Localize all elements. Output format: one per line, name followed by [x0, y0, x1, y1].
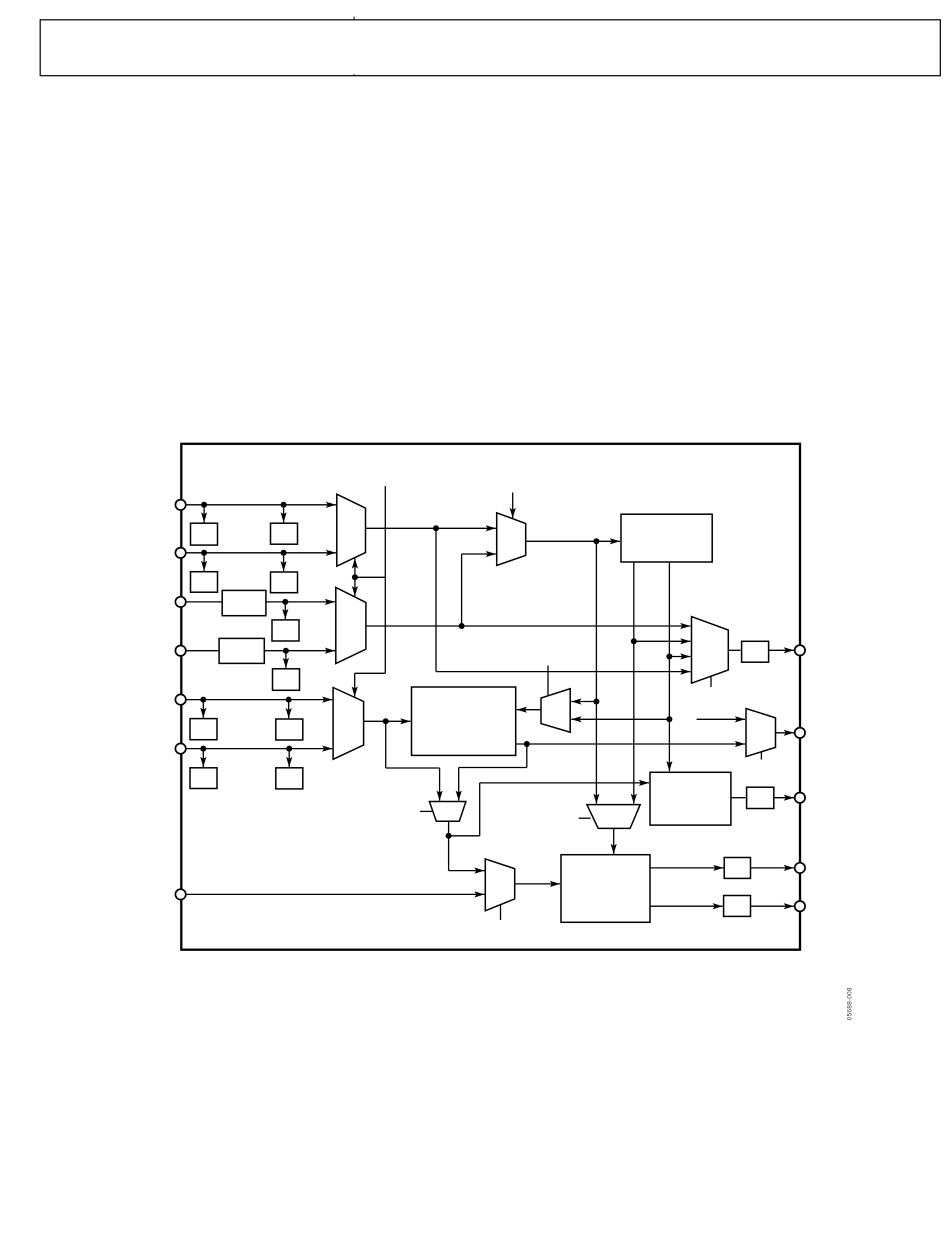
node row1 junction b: [281, 502, 287, 508]
wire row3 right: [266, 601, 335, 603]
register block A6: [190, 768, 217, 789]
wire F1 select stub: [420, 810, 433, 812]
input pad terminal L2: [175, 548, 185, 558]
register block B4: [273, 669, 300, 691]
wire F2 select stub: [579, 817, 591, 819]
buffer block C4: [219, 638, 264, 663]
wire V3 to M3 in2: [462, 553, 496, 555]
wire M8 output: [515, 883, 560, 885]
wire M6 output: [517, 709, 541, 711]
wire N1 branch down: [526, 744, 528, 768]
wire M1 output: [366, 527, 496, 529]
wire D3 to pad: [751, 867, 794, 869]
wire V4 to M6 in1: [571, 701, 596, 703]
node row6 junction b: [286, 746, 292, 752]
wire riser to S1: [480, 782, 649, 784]
wire D1 to pad: [769, 649, 794, 651]
node swap junction: [352, 574, 358, 580]
function block T1: [561, 855, 650, 923]
wire row4 drop: [285, 651, 287, 668]
output pad terminal R5: [795, 901, 805, 911]
register block A2: [191, 572, 218, 593]
output pad terminal R1: [795, 645, 805, 655]
wire bus V1 elbow: [355, 672, 386, 674]
figure number 05688-008: [847, 987, 854, 1020]
register block B2: [271, 572, 298, 593]
wire bus V6 vertical: [668, 562, 670, 771]
register block B5: [276, 719, 303, 740]
node V5 junction: [631, 638, 637, 644]
mux M5: [333, 688, 364, 760]
wire V3 vertical: [461, 554, 463, 626]
wire bus V4 vertical: [595, 541, 597, 804]
wire D4 to pad: [751, 905, 794, 907]
wire M6 select stub: [547, 666, 549, 696]
wire row5 drop a: [202, 700, 204, 718]
output pad terminal R2: [795, 728, 805, 738]
output driver block D2: [747, 787, 774, 808]
node F1 output junction: [446, 833, 452, 839]
wire M9 select stub: [760, 752, 762, 760]
function block R1: [621, 514, 712, 562]
input pad terminal L6: [175, 743, 185, 753]
node row1 junction a: [201, 502, 207, 508]
node V6 junction b: [666, 716, 672, 722]
output pad terminal R3: [795, 793, 805, 803]
node row6 junction a: [200, 746, 206, 752]
node row5 junction b: [286, 697, 292, 703]
wire M3 output to R1 block: [526, 540, 620, 542]
wire T1 output 1: [650, 867, 723, 869]
input pad terminal L1: [175, 500, 185, 510]
wire row1 drop b: [283, 505, 285, 523]
wire row2 drop b: [283, 553, 285, 571]
wire riser from F1: [449, 835, 480, 837]
output driver block D3: [724, 858, 750, 879]
node row3 junction: [282, 599, 288, 605]
output driver block D1: [742, 641, 769, 662]
wire M9 output to pad: [776, 732, 794, 734]
wire row6 drop b: [288, 749, 290, 767]
wire M2 output to M4 in1: [366, 625, 691, 627]
function block S1: [650, 772, 731, 825]
wire F2 output: [613, 828, 615, 854]
node row5 junction a: [200, 697, 206, 703]
wire V6 to M6 in2: [571, 718, 669, 720]
node V6 junction a: [666, 654, 672, 660]
wire T1 output 2: [650, 905, 723, 907]
node V4 junction: [593, 699, 599, 705]
wire row3 left: [185, 601, 222, 603]
wire M9 in1 stub: [697, 718, 745, 720]
wire swap to bus V1: [355, 576, 385, 578]
node M5 output junction: [383, 718, 389, 724]
wire swap up arrow: [354, 558, 356, 577]
function block N1: [412, 687, 516, 755]
wire F1 to M8 in1: [449, 870, 485, 872]
wire M5 output: [364, 720, 411, 722]
wire riser vertical: [479, 783, 481, 836]
wire N1 branch left: [459, 767, 527, 769]
mux M1: [337, 494, 366, 566]
wire bus V1 into M5: [354, 673, 356, 696]
wire V2 vertical: [435, 528, 437, 671]
wire M8 select stub: [500, 905, 502, 920]
input pad terminal L5: [175, 694, 185, 704]
wire M5 branch down: [385, 721, 387, 768]
node M2 output junction: [459, 623, 465, 629]
wire F1 output down: [448, 821, 450, 870]
register block B1: [271, 523, 298, 544]
output pad terminal R4: [795, 863, 805, 873]
header column tick bottom: [353, 74, 355, 76]
wire M5 branch into F1: [439, 768, 441, 801]
node N1 output junction: [524, 741, 530, 747]
wire M4 output: [728, 649, 740, 651]
wire row7 long input: [185, 893, 484, 895]
wire M4 select stub: [710, 676, 712, 687]
wire S1 output: [731, 797, 746, 799]
buffer block C3: [222, 590, 266, 615]
wire row2 drop a: [203, 553, 205, 571]
funnel mux F1: [429, 802, 466, 822]
wire N1 output: [516, 743, 745, 745]
wire row5 drop b: [288, 700, 290, 719]
wire M5 branch right: [386, 767, 440, 769]
wire row1 drop a: [203, 505, 205, 523]
input pad terminal L3: [175, 597, 185, 607]
mux M6: [541, 689, 570, 733]
register block A5: [190, 719, 217, 740]
svg-text:05688-008: 05688-008: [847, 987, 854, 1020]
wire row5: [185, 699, 332, 701]
output driver block D4: [724, 896, 751, 917]
wire V5 to M4 in2: [634, 640, 691, 642]
node M1 output junction: [433, 525, 439, 531]
register block B6: [276, 768, 303, 789]
register block A1: [191, 523, 218, 545]
wire row2 REFINB: [185, 552, 336, 554]
node row2 junction b: [281, 550, 287, 556]
wire row1 REFINA: [185, 504, 336, 506]
input pad terminal L7: [175, 889, 185, 899]
wire row4 right: [264, 650, 335, 652]
node row2 junction a: [201, 550, 207, 556]
wire M3 select stub: [512, 493, 514, 519]
wire V6 to M4 in3: [669, 656, 690, 658]
wire N1 branch into F1: [458, 768, 460, 801]
wire bus V1 vertical: [384, 486, 386, 673]
wire bus V5 vertical: [633, 562, 635, 804]
wire row6: [185, 748, 332, 750]
mux M4: [692, 617, 729, 684]
wire V2 to M4 in4: [436, 671, 690, 673]
wire row3 drop: [284, 602, 286, 619]
node M3 output junction: [593, 538, 599, 544]
header table frame: [40, 20, 940, 76]
header column tick top: [353, 17, 355, 21]
mux M9: [746, 709, 776, 757]
chip boundary frame: [181, 444, 800, 950]
mux M3: [497, 513, 526, 566]
mux M2: [336, 587, 366, 663]
wire row4 left: [185, 650, 219, 652]
register block B3: [272, 620, 299, 641]
input pad terminal L4: [175, 646, 185, 656]
mux M8: [485, 859, 514, 911]
funnel mux F2: [587, 805, 640, 829]
node row4 junction: [283, 648, 289, 654]
wire row6 drop a: [202, 749, 204, 767]
wire swap down arrow: [354, 577, 356, 596]
wire D2 to pad: [774, 797, 794, 799]
